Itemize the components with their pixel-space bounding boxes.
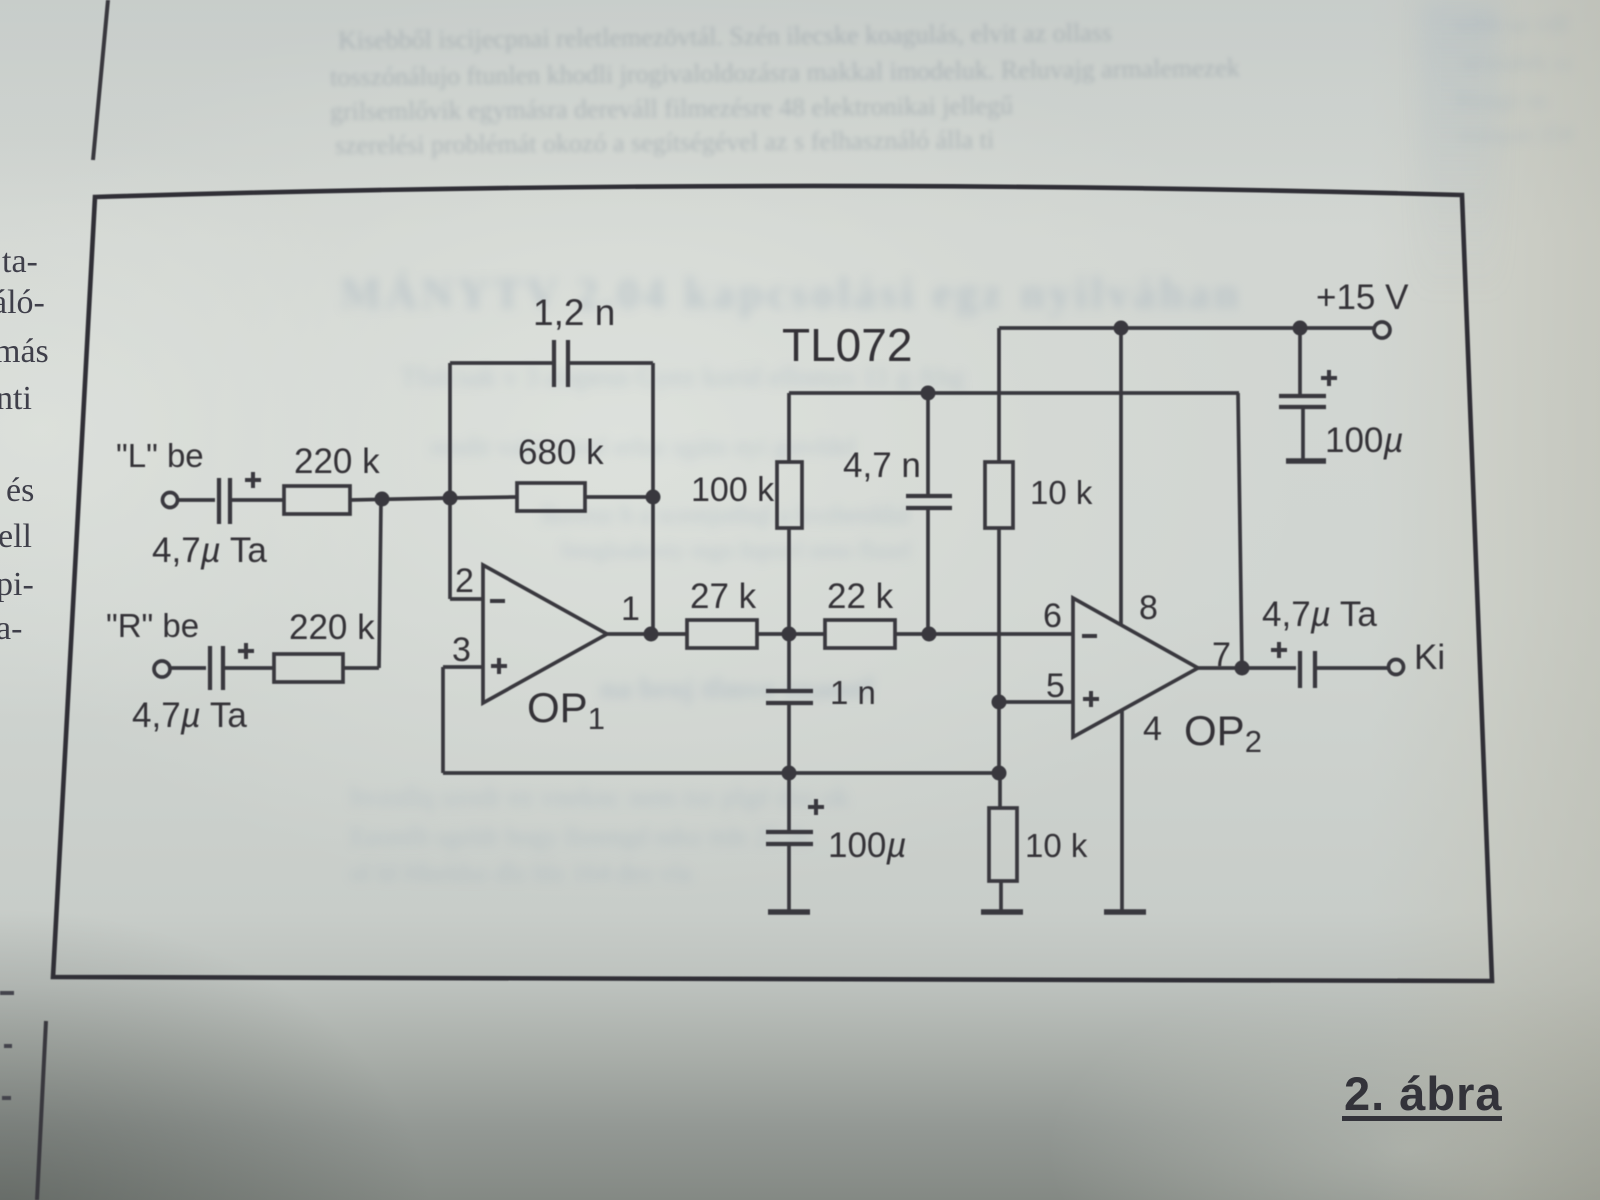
ground (bias 100u) [768,909,810,915]
capacitor C6 100u (bias decoupling) [766,773,824,911]
svg-text:OP2: OP2 [1184,707,1262,759]
wire R4 to node A [757,632,825,636]
wire inverting node riser [448,363,452,599]
svg-text:100 k: 100 k [691,471,775,509]
resistor R1 220k (L) [284,486,350,514]
node: 4,7n top junction [921,386,936,401]
wire C2 to R2 [225,666,274,670]
node: inverting input riser junction [443,491,458,506]
ground (pin4) [1104,909,1146,915]
left margin column text (cut off words) [2,243,38,281]
resistor R4 27k [687,620,757,648]
svg-text:220 k: 220 k [294,442,380,481]
wire pin3 riser to bias rail [441,667,445,773]
svg-text:22 k: 22 k [827,577,894,616]
svg-text:2: 2 [455,562,474,600]
wire feedback right riser [651,363,655,634]
svg-text:680 k: 680 k [518,433,604,472]
node: OP2 output junction [1235,661,1250,676]
node: L/R mix junction [375,492,390,507]
svg-text:TL072: TL072 [782,319,912,371]
svg-text:OP1: OP1 [527,684,605,736]
ground (decoupling 100u) [1286,458,1326,464]
svg-text:4,7µ Ta: 4,7µ Ta [1262,595,1377,634]
capacitor C1 4,7u Ta (L input) [219,472,261,524]
svg-text:4,7µ Ta: 4,7µ Ta [132,696,247,735]
wire pin4 (V-) [1120,710,1124,911]
wire R channel riser [379,500,381,668]
faint out-of-focus article text at top of page [338,18,1112,56]
resistor R2 220k (R) [274,654,343,682]
svg-text:8: 8 [1139,589,1158,627]
terminal "L" input [163,493,178,508]
wire bias rail [443,771,1000,775]
svg-text:10 k: 10 k [1025,827,1088,864]
svg-text:1 n: 1 n [830,674,876,711]
node: feedback/output column at 680k [646,490,661,505]
left margin hyphen marks below figure [0,993,14,1098]
wire L terminal to C1 [178,498,215,502]
svg-text:7: 7 [1212,636,1231,674]
capacitor C8 4,7u Ta (output) [1271,642,1315,688]
svg-text:1,2 n: 1,2 n [533,292,615,333]
wire R1 to node mix [350,498,450,500]
resistor R3 680k (feedback) [517,483,585,511]
capacitor C7 100u (+15V decoupling) [1279,328,1337,459]
svg-text:10 k: 10 k [1030,474,1093,511]
svg-text:27 k: 27 k [690,577,757,616]
wire pin5 stub [999,700,1073,704]
capacitor C4 4,7n [906,393,952,634]
node A junction [782,627,797,642]
node: bias rail end junction [992,766,1007,781]
node: bias rail at 100u [782,766,797,781]
figure caption 2. abra [1344,1066,1503,1121]
svg-text:"R" be: "R" be [106,607,199,644]
wire R terminal to C2 [170,666,206,670]
wire C8 to Ki terminal [1317,666,1388,670]
node: +15 rail pin8 junction [1114,321,1129,336]
capacitor C3 1,2n (feedback) [554,340,568,387]
wire pin8 (V+) [1119,328,1123,624]
op-amp OP1 [483,565,607,703]
resistor R8 10k (lower divider) [989,773,1017,911]
ground (divider) [981,909,1023,915]
svg-text:100µ: 100µ [1325,421,1404,460]
wire feedback rail OP2 [789,391,1239,395]
page column rule top-left [93,0,108,160]
wire divider middle [997,528,1001,773]
capacitor C2 4,7u Ta (R input) [210,643,254,690]
wire OP2 feedback riser [1238,393,1242,668]
node: pin5 junction [992,695,1007,710]
terminal "R" input [154,661,170,677]
wire OP1 output [607,632,687,636]
resistor R5 22k [825,620,895,648]
resistor R7 10k (upper divider) [985,462,1013,528]
svg-text:6: 6 [1043,597,1062,635]
svg-text:4,7 n: 4,7 n [843,446,921,485]
page column rule bottom-left [37,1021,46,1200]
svg-text:"L" be: "L" be [116,437,204,474]
svg-text:220 k: 220 k [289,608,375,647]
bleed-through from reverse side inside figure [340,268,1242,319]
wire pin2 stub [450,597,483,601]
svg-text:1: 1 [621,590,640,628]
wire OP2 output [1198,666,1296,670]
svg-text:3: 3 [452,631,471,669]
node: output/feedback junction [644,627,659,642]
op-amp OP2 [1073,598,1198,737]
wire R5 to node B and OP2 pin6 [895,632,1073,636]
wire 10k upper to +15V [997,328,1001,462]
wire node to R3 [450,497,517,498]
node B junction [922,627,937,642]
terminal Ki output [1389,660,1404,675]
wire feedback top rail left [450,361,554,365]
svg-text:5: 5 [1046,667,1065,705]
wire R3 to riser [585,495,653,499]
wire R2 to riser [343,666,379,670]
wire pin3 stub [443,665,483,669]
wire C1 to R1 [232,498,284,502]
svg-text:+15 V: +15 V [1316,278,1409,317]
node: +15 rail 100u junction [1293,321,1308,336]
svg-text:4,7µ Ta: 4,7µ Ta [152,531,267,570]
svg-text:4: 4 [1143,710,1162,748]
svg-text:Ki: Ki [1414,638,1445,677]
+15V supply rail [999,326,1374,330]
figure border frame [53,186,1492,981]
terminal +15V [1374,322,1390,338]
resistor R6 100k (vertical) [777,393,802,634]
capacitor C5 1n (node A to bias rail) [766,634,813,773]
wire feedback top rail right [568,361,653,365]
svg-text:100µ: 100µ [828,826,907,865]
bold blurry fragments right margin top [1455,12,1568,39]
